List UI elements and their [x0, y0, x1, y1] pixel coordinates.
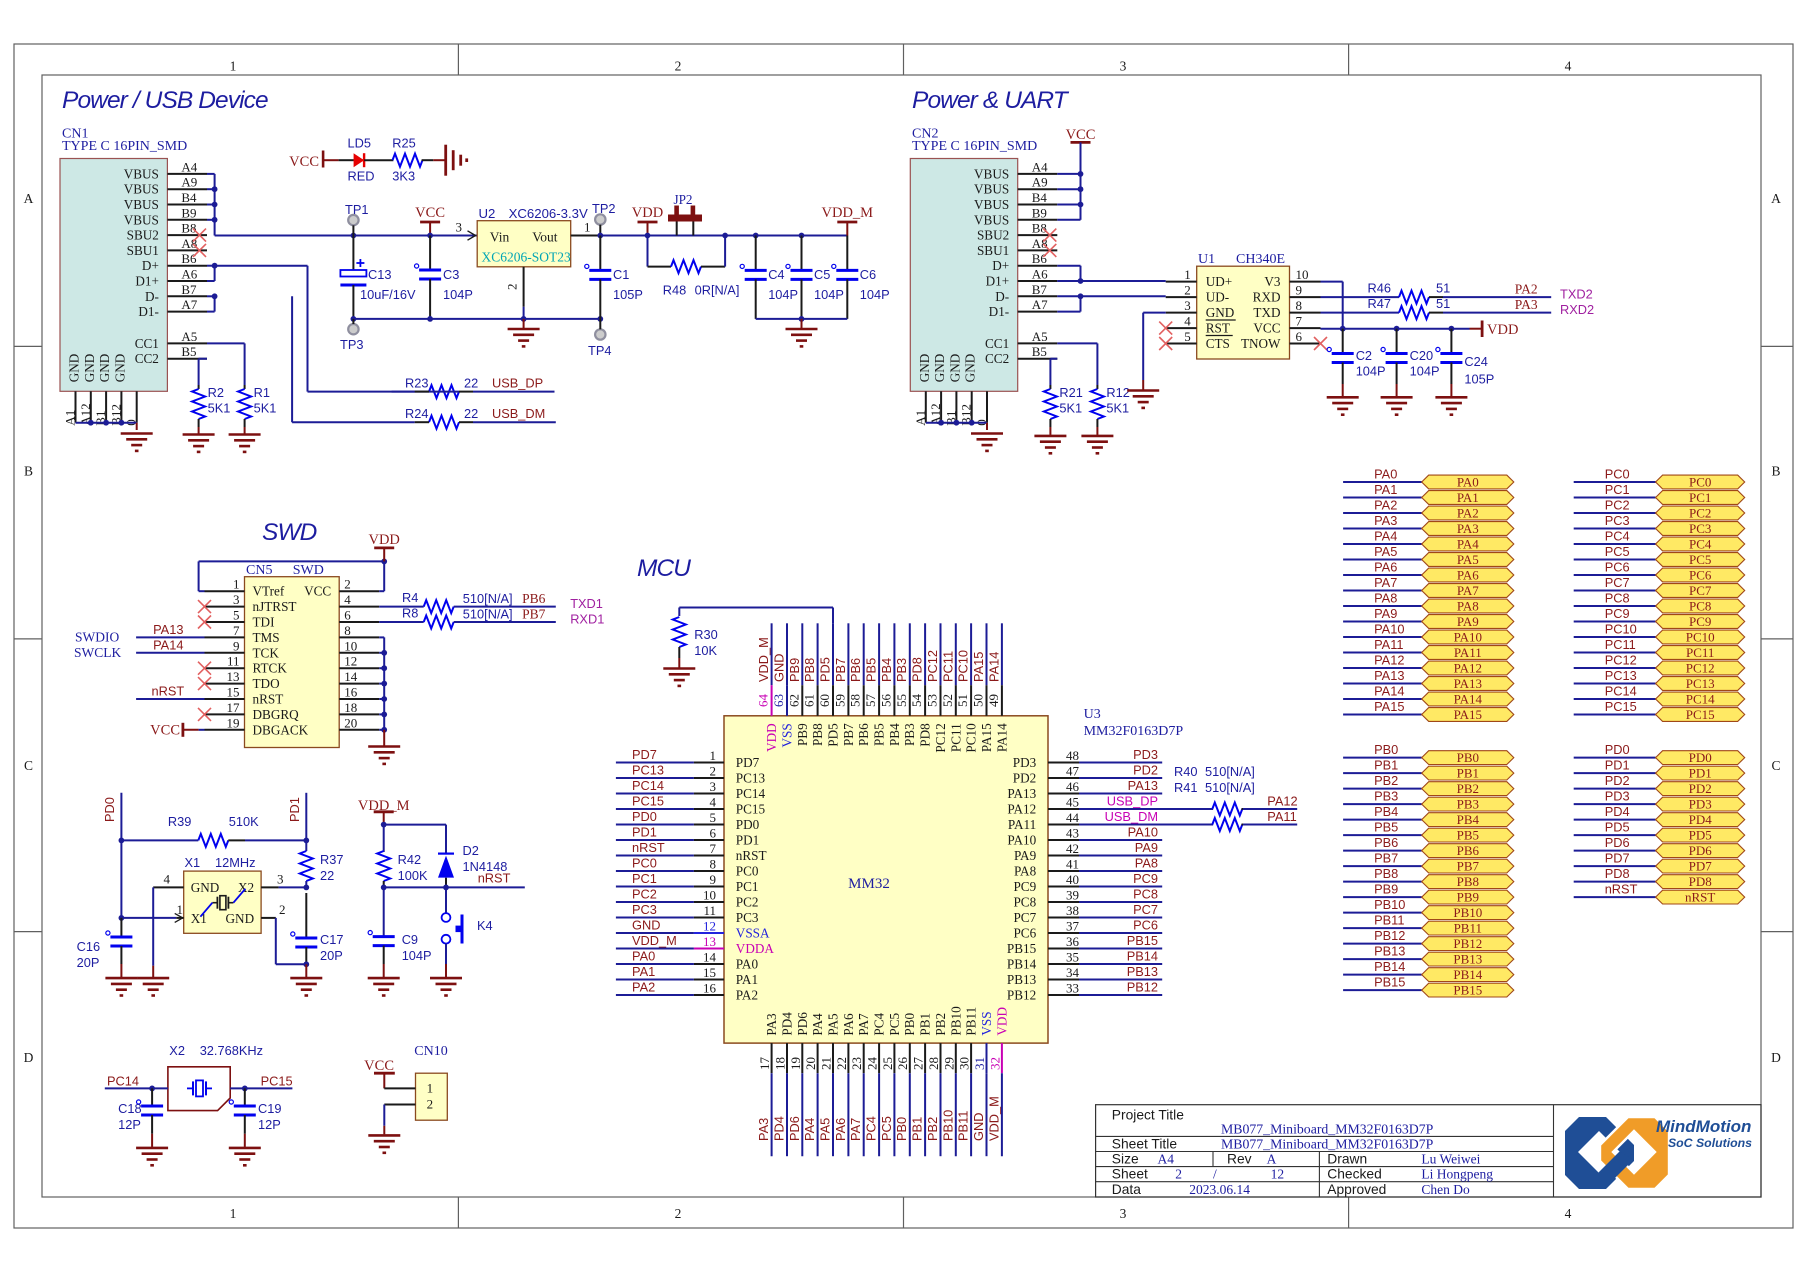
svg-text:R48: R48: [663, 283, 686, 298]
svg-text:28: 28: [926, 1057, 941, 1070]
svg-text:TXD1: TXD1: [570, 596, 603, 611]
svg-text:R21: R21: [1059, 385, 1082, 400]
svg-text:B6: B6: [181, 251, 197, 266]
svg-text:PB1: PB1: [1457, 766, 1479, 781]
svg-text:PB0: PB0: [894, 1117, 909, 1141]
svg-text:MB077_Miniboard_MM32F0163D7P: MB077_Miniboard_MM32F0163D7P: [1221, 1122, 1434, 1137]
svg-text:R39: R39: [168, 814, 191, 829]
svg-text:PC2: PC2: [1605, 498, 1630, 513]
svg-text:VBUS: VBUS: [124, 197, 159, 212]
svg-text:4: 4: [164, 872, 171, 887]
svg-text:RTCK: RTCK: [253, 661, 288, 676]
svg-text:PA15: PA15: [979, 723, 994, 752]
svg-text:PC13: PC13: [736, 771, 766, 786]
svg-text:PB12: PB12: [1127, 980, 1158, 995]
svg-text:VDDA: VDDA: [736, 941, 775, 956]
svg-text:2: 2: [675, 1206, 682, 1221]
svg-text:5: 5: [710, 810, 717, 825]
svg-text:16: 16: [344, 685, 358, 700]
svg-text:10K: 10K: [694, 643, 717, 658]
svg-text:PD7: PD7: [1605, 851, 1630, 866]
svg-text:PA11: PA11: [1267, 809, 1296, 824]
svg-text:1: 1: [230, 59, 237, 74]
svg-text:PB14: PB14: [1453, 967, 1482, 982]
svg-text:Size: Size: [1112, 1152, 1139, 1167]
svg-text:PA8: PA8: [1374, 591, 1397, 606]
svg-text:PB9: PB9: [1457, 890, 1479, 905]
svg-text:PA2: PA2: [1457, 506, 1479, 521]
svg-text:PA6: PA6: [1457, 568, 1479, 583]
svg-text:PD5: PD5: [1605, 820, 1630, 835]
svg-text:PC7: PC7: [1689, 583, 1712, 598]
svg-text:PC10: PC10: [1605, 622, 1637, 637]
svg-text:1: 1: [1184, 267, 1191, 282]
svg-text:PB0: PB0: [1457, 750, 1479, 765]
svg-text:PC15: PC15: [261, 1074, 293, 1089]
svg-text:VCC: VCC: [150, 722, 180, 738]
svg-text:C6: C6: [860, 267, 876, 282]
svg-text:Power & UART: Power & UART: [912, 87, 1070, 114]
svg-text:PC2: PC2: [632, 887, 657, 902]
svg-text:PB10: PB10: [1453, 905, 1482, 920]
svg-text:D: D: [1771, 1050, 1781, 1065]
svg-text:Power / USB Device: Power / USB Device: [62, 87, 268, 114]
svg-text:PA12: PA12: [1267, 794, 1297, 809]
svg-text:PA0: PA0: [1457, 475, 1479, 490]
svg-text:PC11: PC11: [1686, 645, 1714, 660]
svg-text:2023.06.14: 2023.06.14: [1189, 1182, 1250, 1197]
svg-text:56: 56: [878, 694, 893, 708]
svg-text:37: 37: [1066, 919, 1080, 934]
svg-text:510K: 510K: [229, 814, 259, 829]
svg-text:510[N/A]: 510[N/A]: [463, 591, 513, 606]
svg-text:VBUS: VBUS: [974, 166, 1009, 181]
svg-text:22: 22: [834, 1057, 849, 1070]
svg-text:CTS: CTS: [1206, 336, 1230, 351]
svg-text:3: 3: [1120, 1206, 1127, 1221]
svg-text:4: 4: [1565, 59, 1572, 74]
svg-text:C9: C9: [402, 932, 418, 947]
svg-text:100K: 100K: [398, 868, 428, 883]
svg-text:2: 2: [427, 1097, 434, 1112]
svg-text:3: 3: [1184, 298, 1191, 313]
svg-text:PB5: PB5: [1374, 820, 1398, 835]
svg-text:CC2: CC2: [985, 351, 1009, 366]
svg-text:GND: GND: [917, 354, 932, 383]
svg-text:PC0: PC0: [1689, 475, 1711, 490]
svg-text:B4: B4: [181, 190, 197, 205]
svg-text:PB5: PB5: [872, 723, 887, 746]
svg-text:61: 61: [802, 694, 817, 707]
svg-text:PB12: PB12: [1007, 988, 1036, 1003]
svg-text:PD3: PD3: [1013, 755, 1037, 770]
svg-text:C17: C17: [320, 932, 343, 947]
svg-text:23: 23: [849, 1057, 864, 1070]
svg-text:R46: R46: [1368, 281, 1391, 296]
svg-text:PC1: PC1: [736, 879, 759, 894]
svg-text:Chen Do: Chen Do: [1421, 1182, 1470, 1197]
svg-text:PA9: PA9: [1457, 614, 1479, 629]
svg-text:PD4: PD4: [780, 1012, 795, 1036]
svg-text:PC1: PC1: [1689, 490, 1711, 505]
svg-text:PD1: PD1: [287, 797, 302, 822]
svg-text:R40: R40: [1174, 764, 1197, 779]
svg-text:PC12: PC12: [925, 650, 940, 682]
svg-text:3K3: 3K3: [392, 169, 415, 184]
svg-text:XC6206-3.3V: XC6206-3.3V: [509, 206, 588, 221]
svg-text:6: 6: [1296, 329, 1303, 344]
svg-text:RXD2: RXD2: [1560, 302, 1594, 317]
svg-text:104P: 104P: [1356, 364, 1386, 379]
svg-text:12: 12: [1271, 1167, 1285, 1182]
svg-text:PA4: PA4: [802, 1118, 817, 1141]
svg-text:5K1: 5K1: [1106, 401, 1129, 416]
svg-text:PA6: PA6: [841, 1013, 856, 1036]
svg-text:R47: R47: [1368, 296, 1391, 311]
svg-text:12MHz: 12MHz: [215, 855, 256, 870]
svg-text:4: 4: [710, 795, 717, 810]
svg-text:19: 19: [227, 715, 240, 730]
svg-text:TDI: TDI: [253, 615, 275, 630]
svg-text:GND: GND: [947, 354, 962, 383]
svg-text:PD1: PD1: [632, 825, 657, 840]
svg-text:PA5: PA5: [1457, 552, 1479, 567]
svg-text:PB11: PB11: [1454, 921, 1482, 936]
svg-text:SBU2: SBU2: [977, 228, 1009, 243]
svg-text:R37: R37: [320, 852, 343, 867]
svg-text:PA1: PA1: [1374, 482, 1397, 497]
svg-text:VDD: VDD: [1487, 322, 1518, 338]
svg-text:nRST: nRST: [736, 848, 767, 863]
svg-text:PC5: PC5: [1605, 544, 1630, 559]
svg-text:PA5: PA5: [818, 1118, 833, 1141]
svg-text:A6: A6: [1032, 267, 1048, 282]
svg-text:SWCLK: SWCLK: [74, 645, 122, 660]
svg-text:1: 1: [233, 577, 240, 592]
svg-text:104P: 104P: [814, 287, 844, 302]
svg-text:27: 27: [911, 1057, 926, 1071]
svg-text:R1: R1: [254, 385, 270, 400]
svg-text:11: 11: [227, 654, 240, 669]
svg-text:B8: B8: [181, 221, 196, 236]
svg-text:PA6: PA6: [1374, 560, 1397, 575]
svg-text:PC9: PC9: [1133, 871, 1158, 886]
svg-text:MCU: MCU: [637, 555, 691, 582]
svg-text:PC5: PC5: [879, 1116, 894, 1141]
svg-text:VCC: VCC: [1066, 127, 1096, 143]
svg-text:47: 47: [1066, 764, 1080, 779]
svg-text:CC1: CC1: [135, 336, 159, 351]
svg-text:PB1: PB1: [1374, 758, 1398, 773]
svg-text:B6: B6: [1032, 251, 1048, 266]
svg-text:41: 41: [1066, 857, 1079, 872]
svg-text:PA6: PA6: [833, 1118, 848, 1141]
svg-text:51: 51: [1436, 296, 1450, 311]
svg-text:PC3: PC3: [736, 910, 759, 925]
svg-text:PB10: PB10: [948, 1006, 963, 1036]
svg-text:D1+: D1+: [135, 274, 159, 289]
svg-text:2: 2: [1184, 283, 1191, 298]
svg-text:PC8: PC8: [1013, 895, 1036, 910]
svg-text:A1: A1: [63, 410, 78, 426]
svg-text:PB2: PB2: [933, 1013, 948, 1036]
svg-text:PC7: PC7: [1133, 902, 1158, 917]
svg-text:9: 9: [233, 638, 240, 653]
svg-text:A4: A4: [1158, 1152, 1175, 1167]
svg-text:VBUS: VBUS: [974, 212, 1009, 227]
svg-text:PC7: PC7: [1605, 575, 1630, 590]
svg-text:PD7: PD7: [632, 747, 657, 762]
svg-text:PA13: PA13: [1454, 676, 1482, 691]
svg-text:C18: C18: [118, 1101, 141, 1116]
svg-text:TYPE C 16PIN_SMD: TYPE C 16PIN_SMD: [62, 139, 187, 154]
svg-text:PC15: PC15: [1686, 707, 1715, 722]
svg-text:PD8: PD8: [1605, 866, 1630, 881]
svg-text:PA4: PA4: [810, 1013, 825, 1036]
svg-text:14: 14: [703, 950, 717, 965]
svg-text:PB11: PB11: [1374, 913, 1404, 928]
svg-text:PA8: PA8: [1014, 864, 1037, 879]
svg-text:PA11: PA11: [1454, 645, 1482, 660]
svg-text:2: 2: [279, 902, 286, 917]
svg-text:/: /: [1213, 1167, 1217, 1182]
svg-text:RED: RED: [348, 169, 375, 184]
svg-text:VSS: VSS: [979, 1011, 994, 1035]
svg-text:54: 54: [909, 694, 924, 708]
svg-text:29: 29: [941, 1057, 956, 1070]
svg-text:PB3: PB3: [894, 658, 909, 682]
svg-text:PC15: PC15: [736, 802, 766, 817]
svg-text:B5: B5: [1032, 344, 1047, 359]
svg-text:PA14: PA14: [1374, 684, 1404, 699]
svg-text:PD8: PD8: [918, 723, 933, 747]
svg-text:PB2: PB2: [925, 1117, 940, 1141]
svg-text:PA14: PA14: [994, 723, 1009, 752]
svg-text:C19: C19: [258, 1101, 281, 1116]
svg-text:PC3: PC3: [632, 902, 657, 917]
svg-text:PD1: PD1: [1689, 766, 1712, 781]
svg-text:22: 22: [464, 406, 478, 421]
svg-text:PC2: PC2: [736, 895, 759, 910]
svg-text:PA12: PA12: [1007, 802, 1036, 817]
svg-text:nRST: nRST: [478, 871, 511, 886]
svg-text:5K1: 5K1: [208, 401, 231, 416]
svg-text:PA10: PA10: [1454, 630, 1482, 645]
svg-text:PD2: PD2: [1133, 763, 1158, 778]
svg-text:SoC Solutions: SoC Solutions: [1668, 1136, 1752, 1150]
svg-text:PD4: PD4: [1605, 804, 1630, 819]
svg-text:SBU1: SBU1: [977, 243, 1009, 258]
svg-text:JP2: JP2: [673, 192, 692, 207]
svg-text:PB8: PB8: [802, 658, 817, 682]
svg-text:510[N/A]: 510[N/A]: [1205, 780, 1255, 795]
svg-text:9: 9: [1296, 283, 1303, 298]
svg-text:A9: A9: [181, 175, 197, 190]
svg-text:K4: K4: [477, 918, 493, 933]
svg-text:VDD: VDD: [632, 205, 663, 221]
svg-text:C3: C3: [443, 267, 459, 282]
svg-text:PC9: PC9: [1689, 614, 1711, 629]
svg-text:VDD: VDD: [764, 723, 779, 752]
svg-text:Li Hongpeng: Li Hongpeng: [1421, 1167, 1493, 1182]
svg-text:C4: C4: [768, 267, 784, 282]
svg-text:PB8: PB8: [1457, 874, 1479, 889]
svg-text:39: 39: [1066, 888, 1079, 903]
svg-text:TCK: TCK: [253, 645, 280, 660]
svg-text:5K1: 5K1: [254, 401, 277, 416]
svg-text:20: 20: [803, 1057, 818, 1070]
svg-text:19: 19: [788, 1057, 803, 1070]
svg-text:42: 42: [1066, 841, 1079, 856]
svg-text:PB14: PB14: [1007, 957, 1037, 972]
svg-text:U2: U2: [479, 206, 496, 221]
svg-text:104P: 104P: [402, 948, 432, 963]
svg-text:6: 6: [344, 608, 351, 623]
svg-text:VBUS: VBUS: [974, 182, 1009, 197]
svg-text:10: 10: [344, 638, 357, 653]
svg-text:A8: A8: [181, 236, 197, 251]
svg-text:Lu Weiwei: Lu Weiwei: [1421, 1152, 1480, 1167]
svg-text:PC10: PC10: [1686, 630, 1715, 645]
svg-text:R8: R8: [402, 606, 418, 621]
svg-text:63: 63: [771, 694, 786, 707]
svg-text:PD5: PD5: [826, 723, 841, 747]
svg-text:12P: 12P: [118, 1117, 141, 1132]
svg-text:PD8: PD8: [910, 657, 925, 682]
svg-text:PB7: PB7: [841, 723, 856, 746]
svg-text:RXD1: RXD1: [570, 612, 604, 627]
svg-text:PC0: PC0: [632, 856, 657, 871]
svg-text:PB5: PB5: [1457, 828, 1479, 843]
svg-text:R41: R41: [1174, 780, 1197, 795]
svg-text:PC5: PC5: [1689, 552, 1711, 567]
svg-text:2: 2: [344, 577, 351, 592]
svg-text:SBU1: SBU1: [127, 243, 159, 258]
svg-text:SBU2: SBU2: [127, 228, 159, 243]
svg-text:3: 3: [710, 779, 717, 794]
svg-text:B9: B9: [181, 205, 196, 220]
svg-text:PB15: PB15: [1007, 941, 1037, 956]
svg-text:22: 22: [320, 868, 334, 883]
svg-text:PB4: PB4: [1457, 812, 1480, 827]
svg-text:nRST: nRST: [632, 840, 665, 855]
svg-text:USB_DM: USB_DM: [492, 406, 545, 421]
svg-text:PD6: PD6: [1689, 843, 1713, 858]
svg-text:PD5: PD5: [818, 657, 833, 682]
svg-text:B9: B9: [1032, 205, 1047, 220]
svg-text:PB6: PB6: [1457, 843, 1480, 858]
svg-text:PA10: PA10: [1374, 622, 1404, 637]
svg-text:TP3: TP3: [340, 337, 363, 352]
svg-text:15: 15: [227, 685, 240, 700]
svg-text:R4: R4: [402, 590, 418, 605]
svg-text:CH340E: CH340E: [1236, 252, 1285, 267]
svg-text:D+: D+: [992, 258, 1009, 273]
svg-text:PA13: PA13: [1128, 778, 1158, 793]
svg-text:59: 59: [832, 694, 847, 707]
svg-text:Vout: Vout: [532, 230, 558, 245]
svg-text:3: 3: [456, 220, 463, 235]
svg-text:GND: GND: [932, 354, 947, 383]
svg-text:nJTRST: nJTRST: [253, 599, 297, 614]
svg-text:21: 21: [819, 1057, 834, 1070]
svg-text:SWDIO: SWDIO: [75, 629, 119, 644]
svg-text:PD0: PD0: [1689, 750, 1712, 765]
svg-text:PA2: PA2: [632, 980, 655, 995]
svg-text:0R[N/A]: 0R[N/A]: [695, 283, 740, 298]
svg-text:PC10: PC10: [964, 723, 979, 753]
svg-text:GND: GND: [191, 880, 220, 895]
svg-text:VBUS: VBUS: [124, 166, 159, 181]
svg-text:RST: RST: [1206, 321, 1230, 336]
svg-text:PD0: PD0: [632, 809, 657, 824]
svg-text:49: 49: [986, 694, 1001, 707]
svg-text:4: 4: [1565, 1206, 1572, 1221]
svg-text:PA11: PA11: [1374, 637, 1403, 652]
svg-text:PB0: PB0: [902, 1012, 917, 1035]
svg-text:PA7: PA7: [848, 1118, 863, 1141]
svg-text:PC6: PC6: [1689, 568, 1712, 583]
svg-text:PB11: PB11: [964, 1007, 979, 1036]
svg-text:PB2: PB2: [1457, 781, 1479, 796]
svg-text:PC14: PC14: [736, 786, 766, 801]
svg-text:USB_DP: USB_DP: [1107, 794, 1158, 809]
svg-text:6: 6: [710, 826, 717, 841]
svg-text:C24: C24: [1464, 354, 1487, 369]
svg-text:PD7: PD7: [1689, 859, 1713, 874]
svg-text:PA1: PA1: [1457, 490, 1479, 505]
svg-text:PA7: PA7: [1457, 583, 1479, 598]
svg-text:B: B: [1771, 464, 1780, 479]
svg-text:GND: GND: [971, 1113, 986, 1141]
svg-text:11: 11: [703, 903, 716, 918]
svg-text:PB0: PB0: [1374, 742, 1398, 757]
svg-text:V3: V3: [1264, 274, 1281, 289]
svg-text:VDD_M: VDD_M: [986, 1096, 1001, 1141]
svg-text:D2: D2: [463, 843, 479, 858]
svg-text:PB3: PB3: [1374, 789, 1398, 804]
svg-text:USB_DM: USB_DM: [1105, 809, 1158, 824]
svg-text:PB15: PB15: [1374, 975, 1405, 990]
svg-text:1: 1: [710, 748, 717, 763]
svg-text:PA15: PA15: [971, 652, 986, 682]
svg-text:PD4: PD4: [772, 1116, 787, 1141]
svg-text:8: 8: [1296, 298, 1303, 313]
svg-text:A4: A4: [1032, 159, 1048, 174]
svg-text:PB1: PB1: [910, 1117, 925, 1141]
svg-text:PB6: PB6: [848, 658, 863, 682]
svg-text:PB7: PB7: [833, 658, 848, 682]
svg-text:D-: D-: [145, 289, 159, 304]
svg-text:PB4: PB4: [879, 658, 894, 682]
svg-text:PA0: PA0: [1374, 467, 1397, 482]
svg-text:SWD: SWD: [262, 519, 317, 546]
svg-text:10: 10: [1296, 267, 1309, 282]
svg-text:PA7: PA7: [856, 1013, 871, 1036]
svg-text:46: 46: [1066, 779, 1080, 794]
svg-text:TXD: TXD: [1253, 305, 1280, 320]
svg-text:PB1: PB1: [918, 1013, 933, 1036]
svg-text:PA12: PA12: [1374, 653, 1404, 668]
svg-text:B5: B5: [181, 344, 196, 359]
svg-text:R23: R23: [405, 376, 428, 391]
svg-text:105P: 105P: [1464, 372, 1494, 387]
svg-text:C13: C13: [368, 267, 391, 282]
svg-text:R42: R42: [398, 852, 421, 867]
svg-text:USB_DP: USB_DP: [492, 376, 543, 391]
svg-text:PA3: PA3: [1457, 521, 1479, 536]
svg-text:PB12: PB12: [1453, 936, 1482, 951]
